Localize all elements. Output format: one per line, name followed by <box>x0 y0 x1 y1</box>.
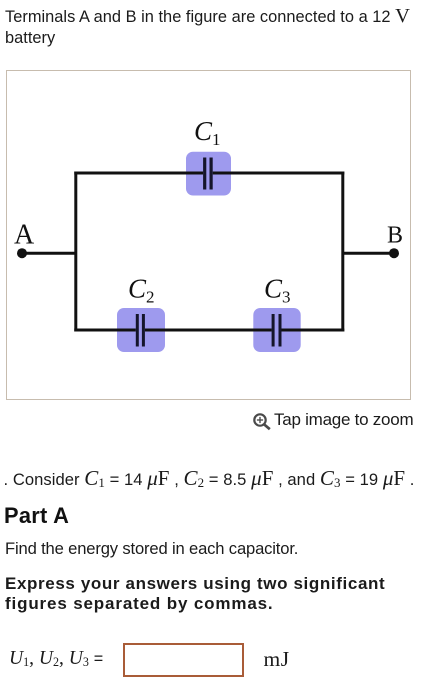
svg-text:C1: C1 <box>194 116 221 149</box>
capacitor C1 highlight square <box>186 152 231 196</box>
svg-text:C2: C2 <box>128 274 155 307</box>
unit mJ <box>264 649 290 671</box>
wire: bottom branch between C2 and C3 <box>145 329 272 332</box>
figure frame box <box>6 70 411 400</box>
intro line 2 <box>5 30 55 46</box>
capacitor C2 plates <box>136 314 139 347</box>
capacitor C1 plates <box>203 158 206 190</box>
tap image to zoom text <box>274 411 413 428</box>
wire: bottom branch left of C2 <box>74 329 136 332</box>
wire: top branch right of C1 <box>213 172 345 175</box>
wire: top branch left of C1 <box>74 172 203 175</box>
capacitor C3 plates <box>272 314 275 347</box>
node A terminal dot <box>17 248 27 258</box>
node B terminal dot <box>389 248 399 258</box>
svg-text:C3: C3 <box>264 274 291 307</box>
wire: terminal A lead <box>22 252 76 255</box>
answer input box <box>123 643 244 677</box>
capacitor C3 highlight square <box>253 308 300 352</box>
tap-to-zoom icon <box>251 410 273 432</box>
express bold line 2 <box>5 595 274 612</box>
intro line 1 <box>5 6 410 27</box>
find energy line <box>5 541 298 558</box>
capacitor C2 highlight square <box>117 308 165 352</box>
answer label U1,U2,U3 = <box>9 649 103 669</box>
wire: bottom branch right of C3 <box>282 329 345 332</box>
consider line <box>4 468 415 489</box>
express bold line 1 <box>5 575 385 592</box>
svg-text:A: A <box>14 220 35 251</box>
wire: terminal B lead <box>343 252 394 255</box>
Part A heading <box>4 505 69 527</box>
wire: right vertical branch <box>341 172 344 332</box>
circuit schematic svg <box>6 70 411 399</box>
wire: left vertical branch <box>74 172 77 332</box>
svg-text:B: B <box>387 222 403 248</box>
